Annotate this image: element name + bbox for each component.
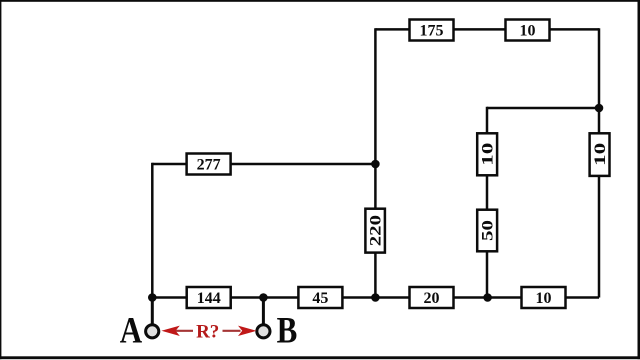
arrow right of R?	[223, 326, 257, 336]
resistor 50 vertical	[477, 210, 497, 252]
wire top: node T to right column through R175 and R10a	[375, 28, 599, 31]
svg-text:20: 20	[424, 290, 440, 307]
wire bottom: from node A stub to right column through R144 R45 R20 R10d	[152, 296, 599, 299]
svg-text:45: 45	[312, 290, 328, 307]
terminal B circle	[257, 325, 270, 338]
svg-text:277: 277	[197, 157, 221, 174]
node A label	[120, 311, 143, 351]
resistor 220 vertical	[365, 209, 385, 253]
resistor 175	[410, 20, 454, 41]
resistor 10 vertical right	[590, 133, 610, 176]
svg-text:220: 220	[367, 215, 384, 246]
resistor 45	[298, 287, 342, 308]
resistor 10 vertical left	[477, 133, 497, 175]
resistor 10 bottom	[522, 287, 566, 308]
svg-text:B: B	[277, 311, 298, 351]
resistor 144	[187, 287, 231, 308]
junction node A on bottom wire	[148, 293, 157, 302]
label R?	[196, 322, 219, 343]
resistor 10 top	[506, 20, 550, 41]
node B label	[277, 311, 298, 351]
arrow left of R?	[161, 326, 193, 336]
wire inner horizontal at y=108 joining inner branch to right column	[487, 107, 599, 110]
wire middle vertical at x=375 from top wire to bottom wire	[374, 28, 377, 297]
resistor 277	[187, 154, 231, 175]
svg-text:10: 10	[479, 143, 496, 166]
junction right column top	[595, 104, 604, 113]
wire right vertical at x=599 from top wire to bottom wire	[598, 28, 601, 297]
wire left vertical at x=152 from 277 row to bottom wire	[151, 163, 154, 298]
wire stub to terminal B	[262, 298, 265, 325]
junction node B on bottom wire	[259, 293, 268, 302]
svg-text:144: 144	[197, 290, 221, 307]
wire stub to terminal A	[151, 298, 154, 325]
junction 220 bottom	[371, 293, 380, 302]
wire inner vertical at x=487 from y=108 to bottom wire	[486, 107, 489, 298]
svg-text:A: A	[120, 311, 143, 351]
svg-text:10: 10	[536, 290, 552, 307]
svg-text:175: 175	[420, 23, 444, 40]
svg-text:10: 10	[592, 143, 609, 166]
resistor 20	[410, 287, 454, 308]
wire of resistor 277 row at y=164	[152, 163, 375, 166]
junction at 277 and middle vertical	[371, 160, 380, 169]
terminal A circle	[146, 325, 159, 338]
junction 50 bottom	[483, 293, 492, 302]
svg-text:R?: R?	[196, 322, 219, 343]
svg-text:50: 50	[479, 220, 496, 241]
svg-text:10: 10	[520, 23, 536, 40]
